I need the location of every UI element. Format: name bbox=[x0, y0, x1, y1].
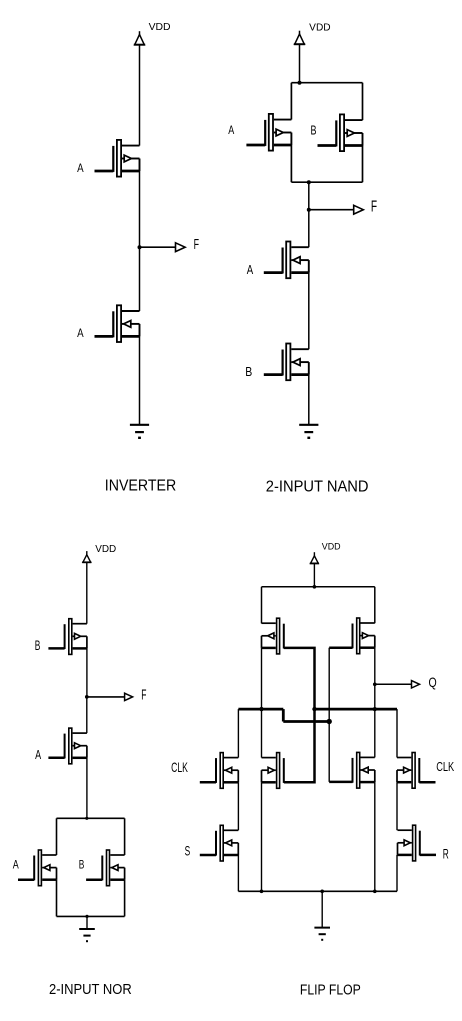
wire left edge bottom (PMOS A source to bottom rail) bbox=[290, 145, 292, 182]
wire upper bus left segment (thick) bbox=[238, 708, 283, 711]
power symbol VDD (NAND) bbox=[294, 31, 305, 45]
power symbol VDD (NOR) bbox=[82, 551, 91, 562]
wire NMOS source to ground bbox=[139, 336, 141, 424]
wire PMOS B source to node F bbox=[86, 648, 88, 697]
wire ground stem (flip flop) bbox=[321, 891, 323, 927]
wire right inverter rail to NMOS R drain bbox=[374, 709, 376, 757]
svg-text:S: S bbox=[185, 844, 191, 859]
wire right edge top (rail to PMOS B drain) bbox=[362, 83, 364, 120]
wire right outer rail top (bus corner to CLK R drain) bbox=[396, 709, 398, 757]
wire left outer rail bottom (S source to bottom rail) bbox=[237, 855, 239, 891]
junction dot lower bus / right gate net bbox=[327, 719, 332, 724]
svg-text:2-INPUT NAND: 2-INPUT NAND bbox=[266, 478, 369, 495]
svg-text:B: B bbox=[79, 860, 85, 872]
svg-text:VDD: VDD bbox=[309, 22, 330, 33]
svg-text:B: B bbox=[35, 638, 41, 653]
wire NMOS A source to NMOS B drain bbox=[308, 273, 310, 350]
wire top rail (flip flop) bbox=[262, 586, 375, 588]
wire NMOS B source to ground bbox=[308, 375, 310, 425]
transistor PMOS (inverter pull-up) bbox=[95, 140, 140, 177]
svg-text:F: F bbox=[371, 199, 377, 216]
wire node F to arrow bbox=[309, 209, 354, 211]
svg-text:B: B bbox=[311, 123, 317, 138]
wire left edge top (rail to NMOS A drain) bbox=[56, 818, 58, 855]
wire VDD stem to top rail bbox=[299, 44, 301, 82]
wire PMOS A source to NMOS box top rail bbox=[86, 758, 88, 819]
junction dot bottom rail / left inverter bbox=[260, 889, 264, 893]
wire node F to PMOS A drain bbox=[86, 697, 88, 733]
output arrow F (inverter) bbox=[176, 243, 186, 252]
wire left inverter rail top (rail to PMOS L drain) bbox=[261, 587, 263, 624]
svg-text:Q: Q bbox=[429, 674, 437, 690]
svg-text:A: A bbox=[77, 161, 84, 175]
wire bottom rail (flip flop) bbox=[238, 890, 397, 892]
junction dot bottom rail / right inverter bbox=[373, 889, 377, 893]
svg-text:F: F bbox=[141, 688, 146, 704]
svg-text:CLK: CLK bbox=[171, 759, 188, 775]
transistor NMOS pass CLK R (mirrored) bbox=[397, 753, 436, 789]
svg-text:INVERTER: INVERTER bbox=[105, 478, 176, 495]
wire left outer rail top (bus to CLK L drain) bbox=[237, 709, 239, 758]
wire output node to arrow F bbox=[140, 246, 176, 248]
transistor NMOS pass CLK L bbox=[200, 753, 239, 789]
wire node Q to arrow bbox=[375, 683, 412, 685]
wire left inverter rail to NMOS L drain bbox=[261, 709, 263, 758]
power symbol VDD (flip flop) bbox=[310, 552, 319, 563]
node F junction dot (NAND) bbox=[307, 208, 311, 212]
junction dot left inverter rail / upper bus bbox=[259, 707, 263, 711]
wire PMOS source to output node bbox=[139, 171, 141, 247]
transistor NMOS L (left inverter, mirrored) bbox=[262, 753, 284, 789]
wire bottom rail of parallel PMOS pair bbox=[291, 181, 362, 183]
wire top rail of parallel NMOS pair bbox=[57, 817, 125, 819]
wire bottom rail of parallel NMOS pair bbox=[57, 915, 125, 917]
svg-text:A: A bbox=[228, 123, 234, 137]
wire left outer rail (CLK L source to S drain) bbox=[237, 782, 239, 830]
node Q junction dot bbox=[373, 682, 377, 686]
wire VDD rail to PMOS B drain bbox=[86, 562, 88, 623]
transistor NMOS B (NOR) bbox=[86, 850, 125, 886]
svg-text:VDD: VDD bbox=[149, 22, 171, 33]
wire VDD rail to PMOS drain bbox=[139, 45, 141, 146]
ground (NAND) bbox=[299, 425, 318, 438]
junction dot bottom rail bbox=[307, 180, 311, 184]
transistor NMOS B (NAND series stack) bbox=[264, 344, 309, 381]
wire left edge top (rail to PMOS A drain) bbox=[290, 83, 292, 120]
junction dot VDD / top rail bbox=[298, 81, 302, 85]
wire right outer rail bottom (R source to bottom rail) bbox=[396, 855, 398, 891]
junction dot right inverter rail / upper bus bbox=[373, 707, 377, 711]
power symbol VDD (inverter) bbox=[134, 31, 145, 45]
svg-text:A: A bbox=[35, 747, 41, 762]
transistor NMOS S (set) bbox=[200, 825, 239, 861]
output arrow F (NAND) bbox=[354, 205, 364, 214]
svg-text:A: A bbox=[77, 326, 84, 340]
wire gate net of left inverter (PMOS L gate to NMOS L gate, thick) bbox=[284, 648, 315, 782]
transistor NMOS R (right inverter) bbox=[353, 752, 375, 788]
ground (NOR) bbox=[79, 929, 95, 941]
ground (inverter) bbox=[130, 425, 149, 438]
transistor NMOS (inverter pull-down) bbox=[95, 305, 140, 342]
output arrow F (NOR) bbox=[125, 693, 133, 700]
svg-text:A: A bbox=[13, 858, 19, 872]
wire right edge bottom (PMOS B source to bottom rail) bbox=[362, 146, 364, 183]
transistor PMOS A (NOR series stack) bbox=[48, 728, 87, 764]
wire ground stem (NOR) bbox=[86, 916, 88, 929]
transistor NMOS R (reset, mirrored) bbox=[398, 825, 437, 861]
wire left inverter rail bottom (NMOS L source to bottom rail) bbox=[261, 782, 263, 891]
wire PMOS R gate lead (thick) bbox=[329, 646, 352, 649]
ground (flip flop) bbox=[314, 928, 330, 940]
junction dot gate net / upper bus bbox=[312, 707, 316, 711]
svg-text:CLK: CLK bbox=[436, 759, 454, 774]
wire bottom rail to node F bbox=[308, 182, 310, 210]
wire node Q to upper bus bbox=[374, 684, 376, 709]
junction dot bottom rail / ground bbox=[320, 889, 324, 893]
wire top rail of parallel PMOS pair bbox=[291, 82, 362, 84]
svg-text:2-INPUT NOR: 2-INPUT NOR bbox=[49, 981, 132, 998]
wire lower bus segment (thick) bbox=[283, 720, 329, 723]
output arrow Q (flip flop) bbox=[412, 681, 420, 688]
svg-text:FLIP FLOP: FLIP FLOP bbox=[300, 982, 361, 999]
wire right inverter rail bottom (NMOS R source to bottom rail) bbox=[374, 782, 376, 891]
transistor PMOS R (right inverter) bbox=[353, 618, 375, 654]
junction dot bottom rail / ground bbox=[85, 915, 88, 918]
wire left edge bottom (NMOS A source to bottom rail) bbox=[56, 880, 58, 917]
wire upper bus right segment (thick, Q net) bbox=[315, 708, 398, 711]
wire right inverter rail (PMOS R source to node Q) bbox=[374, 648, 376, 685]
wire node F to NMOS A drain bbox=[308, 210, 310, 248]
transistor PMOS L (left inverter, mirrored) bbox=[262, 618, 284, 654]
svg-text:VDD: VDD bbox=[322, 542, 341, 552]
wire gate net of right inverter (vertical) bbox=[328, 648, 330, 782]
wire right edge top (rail to NMOS B drain) bbox=[124, 818, 126, 855]
wire right inverter rail top (rail to PMOS R drain) bbox=[374, 587, 376, 623]
transistor PMOS B (NAND) bbox=[318, 114, 363, 151]
transistor PMOS A (NAND) bbox=[246, 114, 291, 151]
wire output node to NMOS drain bbox=[139, 247, 141, 311]
svg-text:F: F bbox=[194, 236, 199, 253]
transistor NMOS A (NOR) bbox=[18, 850, 57, 886]
wire VDD stem to top rail bbox=[313, 563, 315, 586]
svg-text:R: R bbox=[443, 846, 449, 862]
wire right edge bottom (NMOS B source to bottom rail) bbox=[124, 880, 126, 917]
svg-text:B: B bbox=[245, 364, 252, 379]
wire bus step down bbox=[282, 709, 285, 721]
wire NMOS R gate lead (thick) bbox=[329, 781, 352, 784]
junction dot NMOS box top rail bbox=[85, 817, 88, 820]
node F junction dot bbox=[138, 245, 142, 249]
wire right outer rail (CLK R source to R drain) bbox=[396, 782, 398, 830]
node F junction dot (NOR) bbox=[85, 695, 89, 699]
svg-text:A: A bbox=[247, 262, 254, 277]
junction dot VDD / top rail bbox=[313, 585, 317, 589]
transistor PMOS B (NOR series stack) bbox=[48, 619, 87, 655]
wire left inverter rail mid (PMOS L source to upper bus) bbox=[261, 648, 263, 709]
wire node F to arrow bbox=[87, 696, 125, 698]
transistor NMOS A (NAND series stack) bbox=[264, 242, 309, 279]
svg-text:VDD: VDD bbox=[95, 544, 116, 555]
